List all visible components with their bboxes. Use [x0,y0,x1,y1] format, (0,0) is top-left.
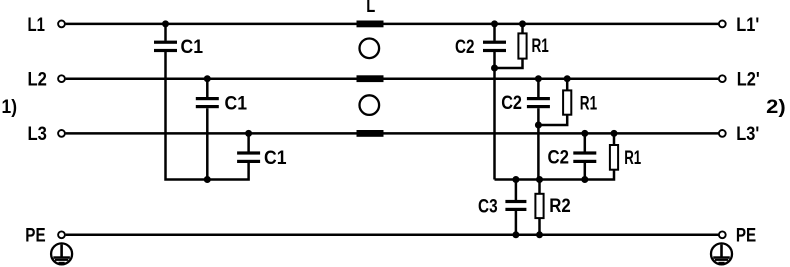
svg-text:C1: C1 [225,93,248,114]
svg-text:L2: L2 [28,70,47,91]
svg-text:C1: C1 [181,37,204,58]
svg-text:L: L [366,0,375,17]
svg-text:L3: L3 [28,124,47,145]
svg-text:L1': L1' [736,15,759,36]
svg-text:C2: C2 [501,93,522,114]
svg-text:L3': L3' [736,124,759,145]
svg-text:R1: R1 [624,148,641,169]
svg-text:C3: C3 [478,197,498,218]
svg-text:R2: R2 [549,196,571,217]
svg-text:C2: C2 [548,147,570,168]
svg-text:PE: PE [25,226,45,247]
svg-text:2): 2) [766,97,786,118]
svg-text:L2': L2' [737,70,760,91]
svg-text:1): 1) [2,97,18,118]
svg-text:R1: R1 [580,93,598,114]
svg-text:L1: L1 [28,15,46,36]
svg-text:C2: C2 [455,37,475,58]
svg-text:R1: R1 [532,36,550,57]
svg-text:PE: PE [736,226,756,247]
svg-text:C1: C1 [264,148,287,169]
